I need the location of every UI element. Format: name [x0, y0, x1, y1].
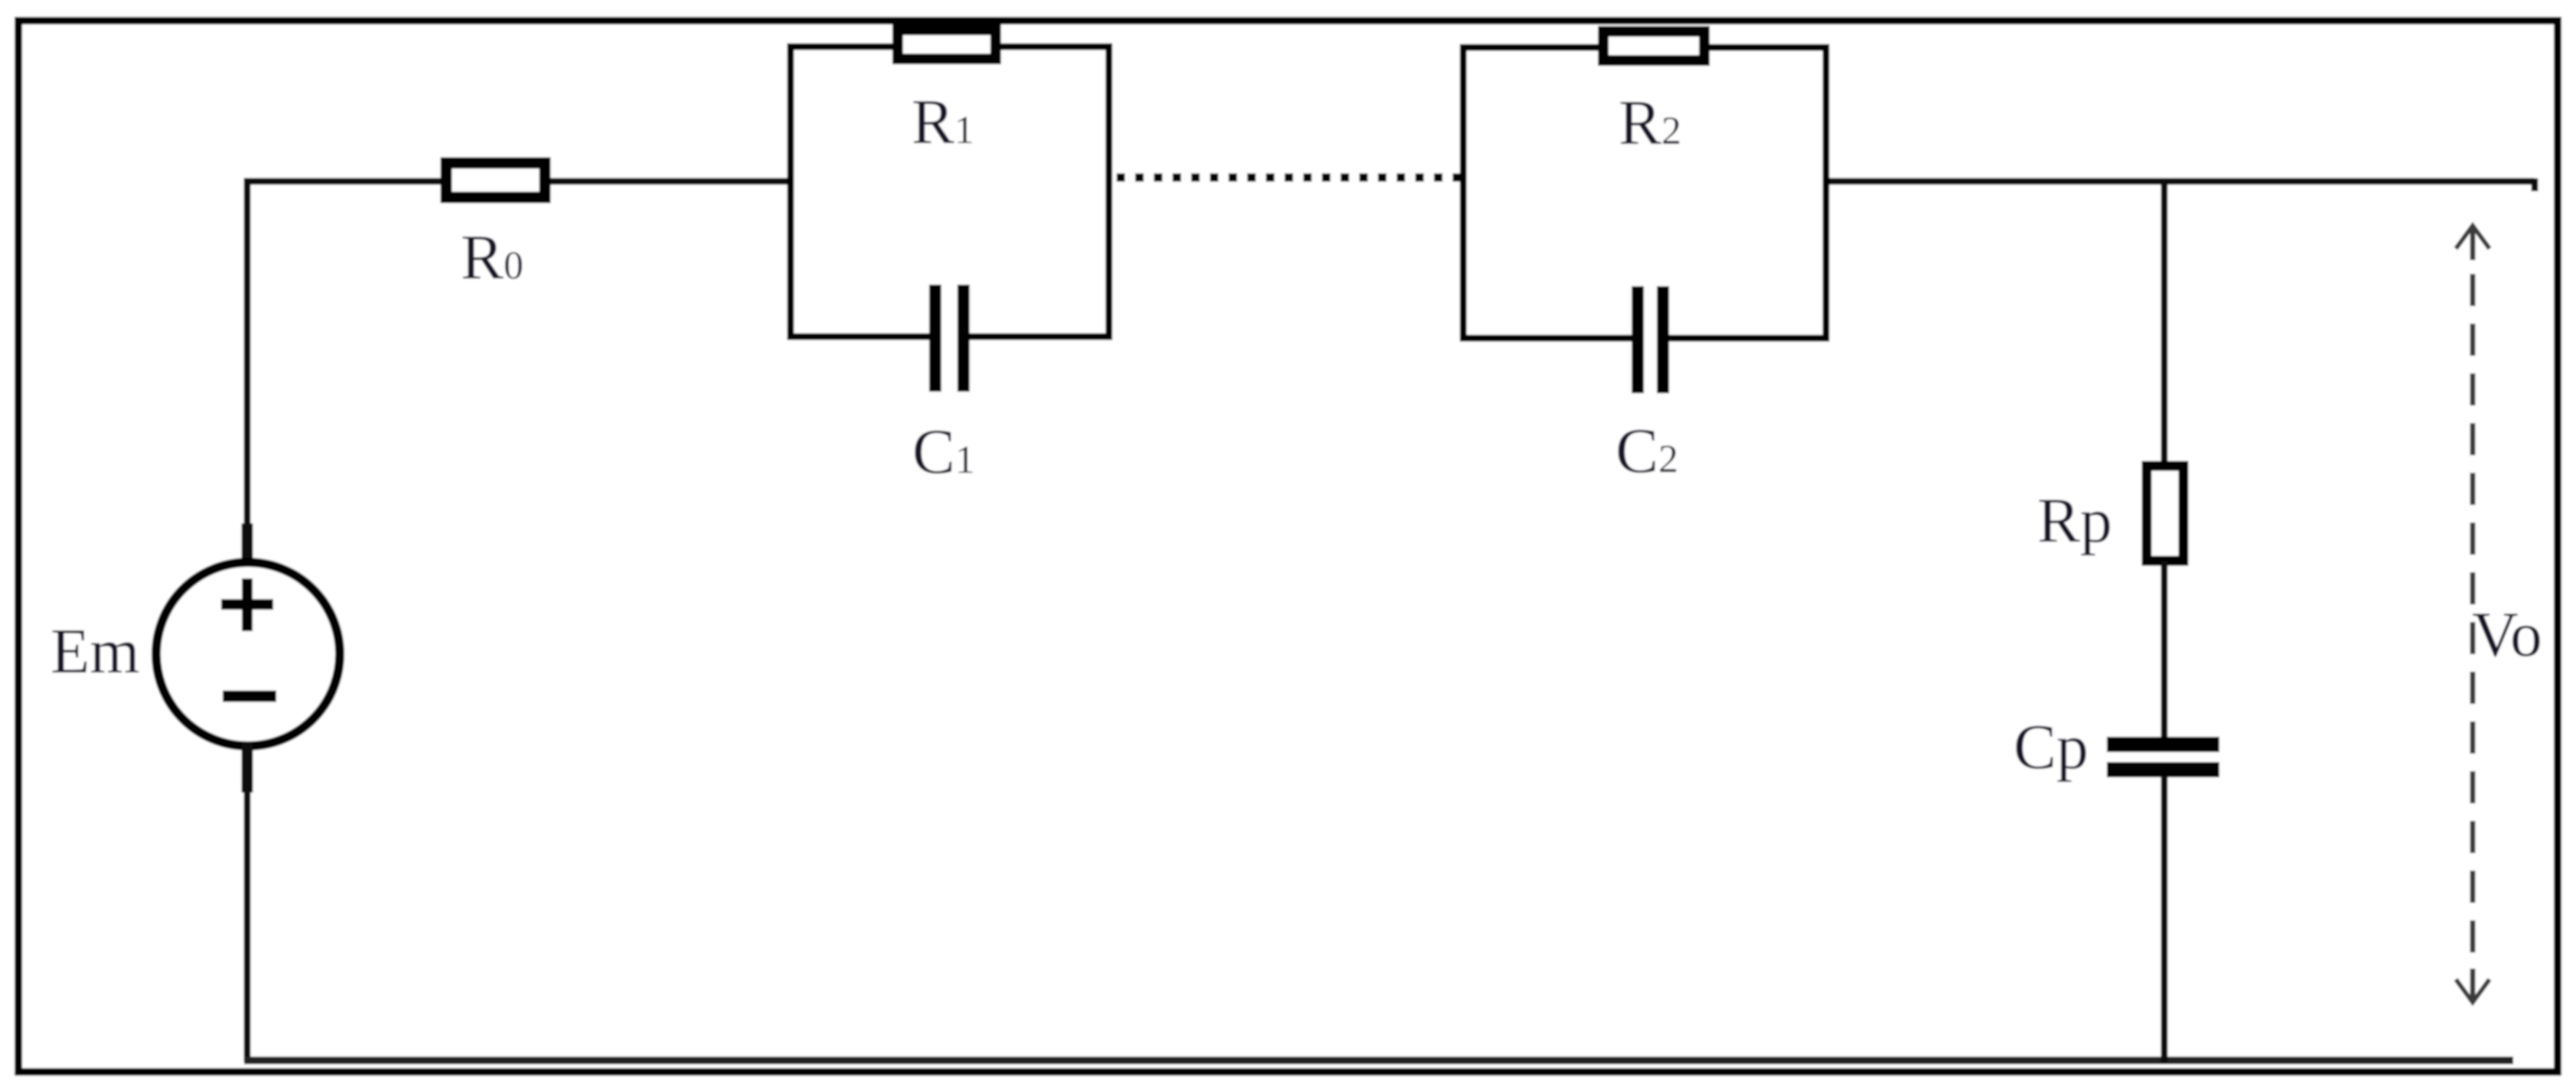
resistor R0 body	[446, 163, 545, 197]
R1C1 parallel box	[791, 47, 1109, 337]
resistor Rp body	[2147, 466, 2183, 561]
resistor R2 body	[1603, 31, 1704, 60]
wire right branch upper	[2161, 178, 2168, 467]
svg-text:Cp: Cp	[2014, 712, 2089, 783]
voltage source Em circle	[156, 562, 340, 746]
svg-text:Vo: Vo	[2472, 599, 2542, 670]
Vo dashed line	[2470, 274, 2476, 958]
wire bottom rail	[244, 1057, 2513, 1064]
dotted wire between R1C1 and R2C2	[1117, 174, 1464, 182]
R2C2 parallel box	[1463, 47, 1826, 338]
wire lead stub below Em	[242, 742, 253, 793]
wire end tick at top right	[2532, 178, 2539, 191]
wire Rp to Cp	[2161, 561, 2168, 738]
capacitor C2 plates	[1632, 286, 1644, 393]
capacitor C1 plates	[929, 285, 941, 392]
Vo measurement arrow top head	[2456, 226, 2490, 249]
wire Cp to bottom rail	[2161, 776, 2168, 1063]
capacitor C2 gap	[1641, 319, 1661, 357]
Vo measurement arrow bottom head	[2470, 969, 2476, 1001]
svg-text:Em: Em	[51, 616, 140, 687]
svg-text:Rp: Rp	[2037, 485, 2112, 556]
wire R2 box to output node	[1826, 178, 2535, 185]
resistor R1 body	[898, 30, 996, 59]
wire left vertical lower	[244, 788, 251, 1062]
wire R0 to R1 box	[546, 178, 794, 185]
Em plus sign	[221, 599, 273, 610]
capacitor C1 gap	[938, 318, 961, 357]
wire lead stub above Em	[242, 523, 253, 568]
Em minus sign	[223, 691, 276, 702]
wire left vertical upper	[244, 178, 251, 529]
capacitor Cp plates	[2107, 737, 2219, 752]
wire top-left horizontal (node A to R0)	[244, 178, 447, 185]
